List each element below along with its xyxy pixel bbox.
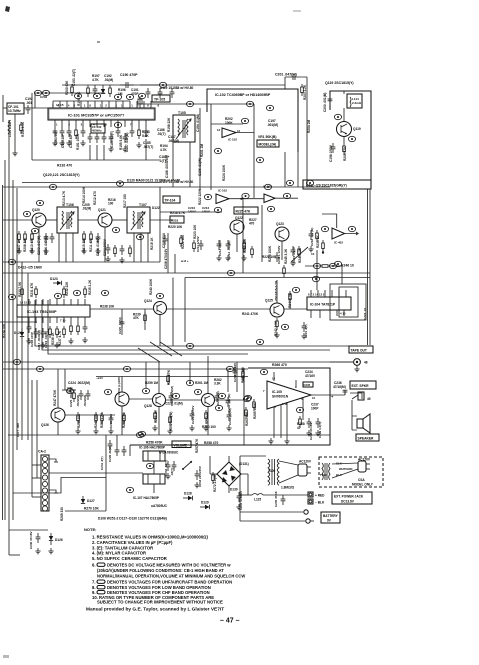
junction dot (322, 251, 324, 253)
svg-text:C246 47/16V: C246 47/16V (29, 531, 33, 549)
wire (78, 219, 98, 221)
wire (46, 219, 57, 221)
resistor stub (21, 286, 24, 298)
box TP-105 (152, 95, 170, 102)
wire bridge leads (210, 456, 248, 493)
wire step bus 2 (42, 300, 330, 350)
resistor stub (299, 416, 302, 428)
wire vertical (58, 233, 60, 262)
resistor stub (73, 390, 76, 402)
capacitor stub (120, 318, 125, 328)
battery connector (308, 492, 313, 504)
wire (32, 477, 41, 479)
wire (243, 369, 245, 396)
wire (89, 145, 91, 160)
wire diagonal (150, 342, 172, 356)
wire C201 top (285, 76, 307, 78)
wire (14, 114, 16, 150)
capacitor C235 box (303, 382, 313, 387)
wire (103, 145, 105, 160)
wire (32, 496, 41, 498)
node (244, 395, 251, 400)
node (159, 82, 166, 87)
svg-text:D124: D124 (14, 331, 22, 335)
wire vertical (284, 152, 286, 187)
capacitor C190 (120, 82, 134, 88)
wire bus upper partial (22, 182, 160, 184)
svg-text:− BLK: − BLK (315, 501, 325, 505)
wire (153, 484, 155, 493)
svg-text:D127: D127 (87, 499, 95, 503)
box TAPE OUT (349, 346, 373, 353)
svg-text:7 10: 7 10 (60, 319, 66, 323)
svg-text:16 45 18 12 11 10 9 8: 16 45 18 12 11 10 9 8 (52, 104, 163, 108)
wire bus box top (185, 277, 370, 279)
wire diagonal R245 (291, 247, 308, 262)
ground (54, 342, 59, 348)
ground (226, 425, 231, 431)
resistor stub (90, 231, 93, 243)
capacitor stub (163, 235, 168, 245)
wire vertical (199, 108, 201, 190)
note line 9 (92, 590, 210, 595)
svg-text:C202: C202 (40, 95, 48, 99)
svg-text:C241 (L)/16V: C241 (L)/16V (117, 377, 121, 395)
resistor stub (129, 245, 132, 257)
wire output (311, 394, 345, 396)
wire bus (3, 368, 248, 370)
svg-text:R259 1M: R259 1M (145, 381, 158, 385)
svg-text:.0022(M): .0022(M) (76, 395, 80, 407)
wire (236, 362, 238, 392)
resistor stub (316, 230, 319, 242)
capacitor stub (122, 446, 127, 456)
svg-text:C193 .22(T): C193 .22(T) (72, 69, 76, 86)
ground (12, 150, 17, 156)
connector circle (304, 510, 308, 514)
ground (274, 332, 279, 338)
wire (351, 400, 353, 416)
wire vertical (184, 278, 186, 343)
ground (93, 428, 98, 434)
IC U102 IC-102 box top (207, 89, 298, 152)
capacitor C192b label (104, 74, 113, 82)
svg-text:C208 470/16V: C208 470/16V (164, 248, 168, 269)
resistor R218 box (170, 216, 184, 223)
svg-text:VOLUME: VOLUME (174, 443, 188, 447)
svg-text:C241 J(T): C241 J(T) (100, 456, 104, 470)
wire (229, 198, 264, 200)
inductor L116 (8, 122, 9, 134)
node (194, 389, 201, 394)
node (260, 369, 267, 374)
ground (315, 430, 320, 436)
wire (65, 414, 115, 416)
capacitor C224 (62, 387, 76, 393)
box SPEAKER (356, 434, 379, 441)
svg-text:w-8 +: w-8 + (180, 259, 189, 263)
node (281, 324, 288, 329)
wire (215, 399, 247, 401)
capacitor stub (93, 85, 98, 95)
capacitor C191 label (131, 88, 139, 96)
scan speck (97, 41, 100, 43)
node (215, 405, 222, 410)
wire (253, 104, 255, 160)
node (73, 290, 80, 295)
resistor stub (123, 412, 126, 424)
svg-text:7.: 7. (92, 580, 96, 585)
capacitor C185 (67, 127, 72, 137)
resistor R202 label (225, 117, 233, 125)
node (66, 388, 73, 393)
resistor stub (63, 286, 66, 298)
capacitor stub (170, 88, 175, 98)
resistor stub (167, 373, 170, 385)
svg-text:R200 63K: R200 63K (65, 80, 69, 95)
transistor Q119 (337, 122, 352, 137)
audio box left edge (243, 368, 245, 445)
node (156, 293, 163, 298)
wire gnd rail under IC-101 (32, 159, 160, 161)
node (101, 290, 108, 295)
wire vertical (172, 142, 174, 187)
svg-text:R256 470K: R256 470K (146, 441, 163, 445)
speaker SP1 (357, 414, 370, 433)
capacitor stub (199, 240, 204, 250)
capacitor stub (83, 323, 88, 333)
svg-text:C220 .01(M): C220 .01(M) (118, 317, 122, 334)
svg-text:R201 1M: R201 1M (200, 144, 204, 157)
svg-text:1. RESISTANCE VALUES IN OHMS(K: 1. RESISTANCE VALUES IN OHMS(K=1000Ω,M=1… (92, 535, 209, 540)
svg-text:C217 .0033(M): C217 .0033(M) (37, 330, 41, 350)
wire (275, 197, 298, 199)
ground (68, 338, 73, 344)
svg-text:47/16(M): 47/16(M) (333, 385, 346, 389)
IC-103 bottom pins (22, 317, 85, 323)
resistor R268 label (297, 422, 305, 430)
svg-text:D130: D130 (230, 488, 238, 492)
node (126, 94, 133, 99)
svg-text:AC120V: AC120V (299, 460, 312, 464)
wire vertical (133, 233, 135, 262)
wire (57, 422, 59, 435)
ground (216, 255, 221, 261)
plug AC (298, 464, 311, 476)
ground (306, 430, 311, 436)
capacitor C234 label (305, 370, 316, 378)
ground (59, 140, 64, 146)
wire (174, 254, 176, 273)
capacitor stub (215, 392, 220, 402)
svg-text:Q120,121 2SC1815(Y): Q120,121 2SC1815(Y) (43, 173, 80, 177)
svg-text:~≥1‖: ~≥1‖ (96, 376, 103, 380)
svg-text:DENOTES VOLTAGES FOR UHF/AIRCR: DENOTES VOLTAGES FOR UHF/AIRCRAFT BAND O… (107, 580, 232, 585)
wire (344, 390, 346, 395)
wire (207, 356, 209, 393)
capacitor stub (195, 470, 200, 480)
wire (165, 399, 201, 401)
IC U103 IC-103 box (17, 305, 90, 317)
svg-text:C190 470P: C190 470P (120, 73, 138, 77)
wire (158, 406, 160, 435)
box R225 (234, 207, 258, 214)
ground (40, 342, 45, 348)
wire long bus (3, 186, 330, 188)
svg-text:R198 22K: R198 22K (167, 117, 171, 132)
svg-text:R258 470: R258 470 (204, 441, 218, 445)
svg-text:D106 W251-2 D127~D130 1S277: D106 W251-2 D127~D130 1S2776 D131(B4B) (98, 517, 167, 521)
wire (289, 303, 291, 309)
node (204, 194, 211, 199)
capacitor stub (86, 390, 91, 400)
wire vertical (36, 380, 38, 478)
svg-text:BATTERY: BATTERY (323, 514, 339, 518)
capacitor stub (106, 244, 111, 254)
node (312, 276, 319, 281)
capacitor C192 label (25, 97, 33, 105)
ground (194, 482, 199, 488)
resistor stub (101, 412, 104, 424)
node (313, 263, 320, 268)
capacitor C245 (281, 495, 286, 505)
ground (203, 425, 208, 431)
svg-text:D119 1S1588 w/ HV-80: D119 1S1588 w/ HV-80 (160, 86, 194, 90)
svg-text:C245 47/16: C245 47/16 (274, 491, 278, 507)
svg-text:R266 470: R266 470 (272, 363, 287, 367)
box EXT SPKR (350, 381, 376, 389)
wire (240, 494, 252, 496)
svg-text:R261 1M: R261 1M (195, 381, 208, 385)
resistor stub (49, 326, 52, 338)
capacitor C237 label (311, 403, 319, 411)
inverter U402 (332, 228, 345, 245)
node (13, 359, 20, 364)
capacitor C188 label (159, 155, 170, 163)
svg-text:C249 + 1/50V: C249 + 1/50V (277, 246, 281, 264)
svg-text:R245 3.3K: R245 3.3K (284, 248, 288, 264)
svg-text:IC-402: IC-402 (334, 241, 343, 245)
dashed box CSA (319, 457, 383, 487)
ground (26, 338, 31, 344)
wire (211, 123, 243, 125)
svg-text:Q119 2SC1815(Y): Q119 2SC1815(Y) (325, 81, 354, 85)
wire (49, 459, 56, 462)
svg-text:2.2mH: 2.2mH (352, 101, 361, 105)
ground (189, 425, 194, 431)
wire (144, 309, 146, 330)
wire vertical (140, 233, 142, 262)
wire step bus 1 (35, 300, 330, 346)
connector tape out jack (354, 359, 361, 366)
wire (24, 107, 48, 109)
wire second right bus (367, 189, 369, 345)
resistor stub (109, 85, 112, 97)
svg-text:R246 10: R246 10 (341, 264, 354, 268)
ground (80, 140, 85, 146)
svg-text:VR1 50K(B): VR1 50K(B) (258, 135, 276, 139)
transistor Q124 (154, 302, 167, 315)
wire (236, 132, 254, 134)
wire (236, 234, 238, 252)
wire (158, 362, 160, 393)
capacitor C205 label (82, 203, 91, 211)
svg-text:R219 1K: R219 1K (150, 237, 154, 250)
wire (153, 461, 155, 474)
box outline top right (303, 91, 371, 189)
wire vertical (105, 435, 107, 511)
capacitor stub (227, 411, 232, 421)
svg-text:Q123: Q123 (276, 222, 284, 226)
resistor R206 (343, 143, 346, 155)
wire (9, 554, 20, 556)
node (186, 101, 193, 106)
wire (240, 511, 303, 513)
wire (112, 219, 127, 221)
ground stub (54, 461, 58, 463)
wire (343, 91, 345, 94)
wire (284, 308, 307, 310)
svg-text:uA7805UC: uA7805UC (151, 504, 168, 508)
transistor Q125 (270, 303, 284, 317)
node (114, 94, 121, 99)
capacitor stub (158, 88, 163, 98)
ground (29, 248, 34, 254)
wire vertical (297, 152, 299, 187)
svg-text:Q124: Q124 (144, 299, 152, 303)
node (186, 343, 193, 348)
node (242, 193, 249, 198)
wire (227, 369, 229, 392)
ground (66, 140, 71, 146)
svg-text:C200 .001(M): C200 .001(M) (323, 93, 327, 113)
wire bus long (3, 272, 370, 274)
diode D123 (53, 281, 62, 285)
svg-text:C229 .01/50V: C229 .01/50V (191, 406, 195, 424)
node (226, 366, 233, 371)
svg-text:470: 470 (249, 222, 255, 226)
node (49, 184, 56, 189)
inductor L114 box (347, 94, 362, 108)
wire upper bus (62, 84, 160, 86)
wire (240, 520, 305, 522)
svg-text:C238 47/16V: C238 47/16V (309, 422, 313, 440)
transistor Q120 (32, 213, 46, 227)
svg-text:6.: 6. (92, 563, 96, 568)
svg-text:100: 100 (108, 202, 114, 206)
wire (49, 472, 106, 474)
diode D129 (200, 501, 210, 510)
svg-text:R240 100K: R240 100K (149, 278, 153, 295)
resistor stub (77, 323, 80, 335)
IC-101 bottom pin stubs (55, 120, 146, 127)
wire (316, 250, 318, 290)
svg-text:R247 470K: R247 470K (53, 389, 57, 406)
ground (35, 548, 40, 554)
audio section box (130, 368, 330, 445)
capacitor stub (130, 127, 135, 137)
wire to C201 (284, 77, 286, 89)
capacitor stub (237, 492, 242, 502)
svg-text:R190 3.3K: R190 3.3K (21, 121, 25, 137)
node (334, 114, 341, 119)
resistor stub (18, 231, 21, 243)
wire (121, 406, 123, 435)
resistor stub (253, 399, 256, 411)
diode D128 (183, 492, 193, 501)
capacitor C186b label (157, 128, 166, 136)
svg-text:D126: D126 (55, 538, 63, 542)
resistor stub (35, 286, 38, 298)
resistor stub (243, 240, 246, 252)
wire (281, 241, 283, 260)
capacitor C197 label (267, 119, 278, 127)
capacitor C188b label (143, 141, 153, 149)
resistor stub (95, 412, 98, 424)
IC U104 IC-104 box (307, 297, 351, 310)
capacitor stub (95, 133, 100, 143)
wire (240, 455, 266, 457)
node (286, 180, 293, 185)
ground (308, 246, 313, 252)
ground (122, 146, 127, 152)
node (42, 90, 49, 95)
node (243, 396, 250, 401)
ground (301, 333, 306, 339)
svg-text:R269 330: R269 330 (60, 507, 64, 521)
node (266, 105, 273, 110)
svg-text:2. CAPACITANCE VALUES IN µF (P: 2. CAPACITANCE VALUES IN µF (P=µµF) (92, 540, 173, 545)
svg-text:CA-2: CA-2 (38, 450, 46, 454)
svg-text:WHT/GRN: WHT/GRN (339, 467, 352, 471)
wire vertical left2 (12, 180, 14, 520)
box MODEL(2H) (257, 140, 279, 147)
capacitor stub (109, 414, 114, 424)
resistor stub (212, 472, 215, 484)
resistor R191 (75, 127, 78, 139)
wire vertical (104, 227, 106, 262)
svg-text:R217 150: R217 150 (123, 194, 127, 208)
capacitor stub (34, 328, 39, 338)
svg-text:T100: T100 (320, 473, 327, 477)
ground (165, 473, 170, 479)
ground (236, 504, 241, 510)
IC-104 pins bottom (311, 310, 344, 318)
svg-text:R238 10K: R238 10K (100, 305, 115, 309)
diode D118 (101, 85, 105, 94)
resistor stub (169, 414, 172, 426)
diode D127 (81, 496, 95, 504)
svg-text:R218: R218 (171, 219, 179, 223)
node (186, 380, 193, 385)
node (292, 287, 299, 292)
svg-text:R224 100K: R224 100K (222, 164, 226, 181)
wire vertical left3 (4, 160, 6, 520)
diode D124 (20, 328, 24, 337)
wire (0, 321, 37, 323)
scan smudge top-left corner mark (5, 6, 10, 12)
wire (3, 107, 7, 109)
resistor stub (242, 369, 245, 381)
svg-text:49: 49 (367, 397, 371, 401)
svg-text:D122: D122 (152, 206, 160, 210)
capacitor stub (120, 245, 125, 255)
wire (64, 369, 66, 390)
node (136, 432, 143, 437)
switch SW (182, 461, 192, 470)
wire (167, 233, 169, 273)
svg-text:.01(T): .01(T) (157, 132, 166, 136)
